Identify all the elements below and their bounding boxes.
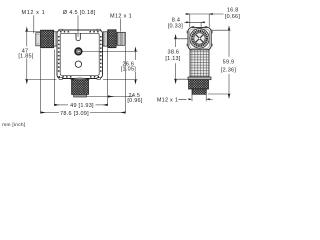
- dim 47 extension lines: [25, 31, 57, 79]
- cable entry U-slot: [76, 33, 80, 40]
- svg-text:[2.36]: [2.36]: [221, 68, 236, 74]
- bottom connector knurled nut: [72, 80, 89, 95]
- side view grid body: [190, 50, 209, 77]
- left connector thread tip: [36, 33, 41, 46]
- svg-text:[0.33]: [0.33]: [168, 23, 183, 29]
- body bottom right extension: [103, 79, 138, 81]
- dim 47 line: [26, 31, 28, 46]
- dim 78.6 line: [41, 112, 60, 114]
- dim 16.8 line: [185, 13, 224, 15]
- dim 16.8 extension stubs: [190, 14, 209, 27]
- mounting screw target: [75, 48, 82, 55]
- bottom thread tip extension: [87, 96, 133, 98]
- bottom connector thread tip: [74, 94, 87, 97]
- dim 24.5 arrow: [108, 96, 114, 98]
- right connector knurled nut: [108, 30, 116, 48]
- svg-text:59.9: 59.9: [223, 60, 235, 66]
- svg-text:38.6: 38.6: [168, 49, 180, 55]
- svg-text:Ø 4.5 [0.18]: Ø 4.5 [0.18]: [63, 10, 96, 16]
- dim 8.4 extension stub: [200, 22, 202, 30]
- thread callout M12x1 line: [179, 98, 187, 100]
- label dia 4.5 leader: [77, 15, 79, 37]
- dim 59.9 extension lines: [208, 30, 231, 94]
- right connector collar: [103, 32, 107, 46]
- dim 26.6 line: [135, 51, 137, 60]
- dim 38.6 line: [175, 39, 177, 47]
- svg-text:M12 x 1: M12 x 1: [110, 14, 132, 20]
- side view flare collar: [188, 77, 211, 80]
- side view head: [188, 27, 211, 49]
- dim 78.6 extension lines: [41, 46, 126, 113]
- head face cross: [196, 34, 204, 42]
- lower hole: [75, 61, 81, 67]
- right connector thread: [117, 32, 125, 45]
- left connector knurled nut: [41, 30, 54, 48]
- svg-text:M12 x 1: M12 x 1: [157, 98, 178, 104]
- svg-text:[0.66]: [0.66]: [225, 14, 240, 20]
- svg-text:[1.05]: [1.05]: [121, 67, 136, 73]
- bottom connector collar: [71, 78, 90, 80]
- label M12x1 right leader: [120, 19, 122, 32]
- dim 49 line: [54, 104, 68, 106]
- body outer outline: [57, 30, 103, 79]
- label M12x1 left leader: [33, 15, 35, 33]
- body corner screw tabs: [59, 29, 100, 79]
- svg-text:M12 x 1: M12 x 1: [22, 10, 46, 16]
- body frame tick marks: [59, 32, 103, 77]
- svg-text:78.6 [3.09]: 78.6 [3.09]: [60, 111, 89, 117]
- svg-text:49 [1.93]: 49 [1.93]: [70, 103, 94, 109]
- dim 38.6 extension lines: [174, 39, 189, 79]
- head face inner circle: [194, 33, 205, 44]
- head face knurled ring: [192, 31, 207, 46]
- svg-text:[0.96]: [0.96]: [127, 98, 142, 104]
- dim 59.9 line: [228, 30, 230, 57]
- dim 8.4 line: [185, 21, 205, 23]
- svg-text:mm [inch]: mm [inch]: [2, 122, 25, 128]
- dim 26.6 extension line: [82, 50, 137, 52]
- svg-text:16.8: 16.8: [227, 8, 239, 14]
- body inner outline: [60, 33, 99, 75]
- svg-text:[1.13]: [1.13]: [165, 56, 180, 62]
- dim 49 extension lines: [54, 49, 107, 106]
- side view thread: [192, 89, 206, 94]
- left connector collar: [54, 32, 57, 46]
- side view knurled nut: [189, 80, 209, 89]
- svg-text:[1.85]: [1.85]: [18, 54, 33, 60]
- head face outer circle: [190, 29, 209, 48]
